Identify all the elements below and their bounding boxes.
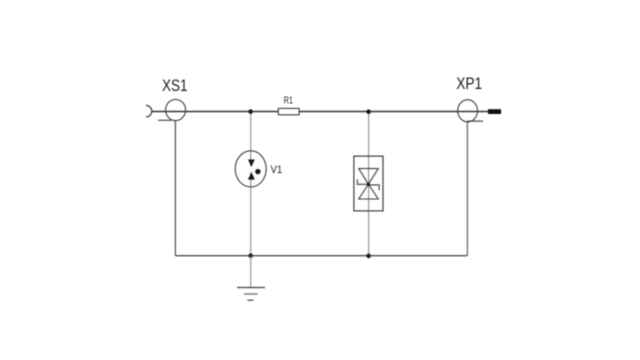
arrester V1 top electrode triangle (248, 160, 255, 167)
suppressor VD right cathode bar (368, 185, 379, 190)
node B junction dot (366, 109, 371, 114)
node D junction dot (366, 254, 371, 259)
svg-text:XP1: XP1 (456, 75, 482, 93)
svg-text:XS1: XS1 (162, 77, 188, 95)
node C junction dot (248, 253, 253, 258)
wire bottom rail (175, 255, 467, 257)
wire left vertical (XS1 down) (174, 121, 176, 256)
wire VD branch vertical (368, 112, 370, 256)
connector XS1 mating arc (146, 105, 152, 117)
connector XP1 plug contact (filled) (488, 109, 501, 114)
suppressor VD apex dot (367, 183, 370, 186)
arrester V1 bottom electrode triangle (248, 172, 255, 179)
ground stem wire (250, 256, 252, 288)
ground bar 1 (237, 287, 265, 289)
svg-text:V1: V1 (271, 164, 283, 176)
wire V1 branch vertical (250, 112, 252, 167)
suppressor VD left cathode bar (357, 179, 368, 184)
connector XS1 circle (166, 99, 186, 120)
connector XP1 circle (458, 100, 478, 122)
arrester V1 circle (235, 151, 266, 187)
connector XP1 tick (467, 120, 483, 122)
connector XS1 tick (158, 119, 172, 121)
wire right vertical (XP1 down) (466, 122, 468, 256)
resistor R1 body (278, 108, 299, 114)
ground bar 3 (247, 299, 253, 301)
suppressor VD bottom triangle (359, 184, 379, 199)
arrester V1 gas dot (255, 169, 260, 174)
ground bar 2 (244, 293, 258, 295)
suppressor VD top triangle (359, 169, 379, 185)
suppressor VD body rect (354, 156, 383, 211)
node A junction dot (248, 109, 253, 114)
svg-text:R1: R1 (284, 95, 294, 107)
wire V1 branch vertical lower (250, 172, 252, 255)
wire top rail (152, 111, 488, 113)
